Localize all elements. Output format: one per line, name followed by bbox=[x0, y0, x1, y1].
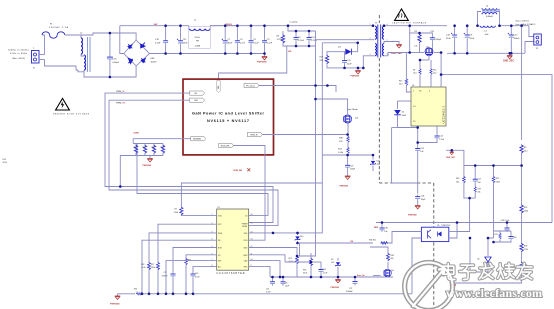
FHD pin rail bbox=[249, 266, 270, 277]
capacitor C10 bbox=[155, 26, 168, 54]
C30 cap on REF rail bbox=[380, 223, 389, 233]
svg-text:RUN: RUN bbox=[243, 240, 248, 242]
svg-text:4: 4 bbox=[429, 91, 430, 93]
fuse F1 bbox=[42, 32, 65, 38]
svg-text:0.068uF: 0.068uF bbox=[346, 291, 353, 293]
svg-text:22uF: 22uF bbox=[470, 38, 475, 40]
svg-text:C31: C31 bbox=[421, 196, 424, 198]
svg-text:220pF: 220pF bbox=[350, 169, 356, 171]
svg-text:CAUTION HOT SURFACE: CAUTION HOT SURFACE bbox=[392, 22, 427, 25]
svg-text:www.elecfans.com: www.elecfans.com bbox=[446, 286, 542, 300]
svg-text:0.1uF: 0.1uF bbox=[267, 43, 273, 45]
svg-text:UCC24612-1: UCC24612-1 bbox=[442, 106, 446, 124]
svg-text:VIN: VIN bbox=[288, 51, 292, 53]
inductor L1 bbox=[189, 20, 238, 49]
capacitor C3 bbox=[262, 26, 273, 54]
bottom primary ground rail bbox=[110, 289, 412, 306]
VS pin bbox=[186, 255, 217, 258]
svg-text:VSW_B: VSW_B bbox=[250, 134, 258, 136]
svg-text:R21: R21 bbox=[496, 178, 499, 180]
svg-text:30uF: 30uF bbox=[228, 43, 233, 45]
svg-text:R6: R6 bbox=[413, 70, 415, 72]
svg-text:R21: R21 bbox=[161, 146, 164, 148]
svg-text:R10: R10 bbox=[433, 70, 436, 72]
svg-text:RUN_BH: RUN_BH bbox=[221, 145, 230, 147]
svg-text:U2: U2 bbox=[477, 259, 479, 261]
svg-text:REF: REF bbox=[374, 227, 379, 229]
aux winding return bbox=[363, 56, 373, 68]
svg-text:PWM_NL: PWM_NL bbox=[116, 91, 126, 93]
svg-text:GND_SEC: GND_SEC bbox=[503, 61, 514, 63]
svg-text:1uH: 1uH bbox=[485, 34, 489, 36]
svg-text:U4: U4 bbox=[412, 85, 414, 87]
svg-text:C20 2.2uF: C20 2.2uF bbox=[501, 220, 511, 222]
svg-text:4700pF: 4700pF bbox=[162, 275, 169, 277]
warning triangle: caution hot surface bbox=[392, 9, 427, 25]
svg-text:RDM: RDM bbox=[218, 233, 223, 235]
svg-text:(Max 440V): (Max 440V) bbox=[12, 58, 25, 60]
svg-text:10.0: 10.0 bbox=[413, 73, 417, 75]
svg-text:5: 5 bbox=[413, 91, 414, 93]
wire N to bottom rail bbox=[45, 60, 79, 71]
SWS pin bbox=[249, 255, 285, 262]
wire L2 to X-cap top bbox=[81, 33, 110, 38]
GND_SEC mini near IC bbox=[446, 150, 464, 165]
svg-text:NH: NH bbox=[194, 100, 198, 102]
svg-text:R25: R25 bbox=[524, 207, 527, 209]
current sense resistor bank R16 R18 R20 R21 bbox=[120, 144, 164, 187]
controller left-side components bbox=[141, 183, 322, 294]
svg-text:23V: 23V bbox=[377, 164, 381, 166]
primary bottom wire to transformer bbox=[316, 39, 374, 41]
svg-text:0.1uF: 0.1uF bbox=[240, 43, 246, 45]
X-cap C1 bbox=[107, 33, 120, 77]
svg-text:D5: D5 bbox=[402, 112, 404, 114]
PWM_NL wire bbox=[105, 93, 273, 222]
svg-text:10.0: 10.0 bbox=[433, 73, 437, 75]
svg-text:R18: R18 bbox=[143, 146, 146, 148]
svg-text:R27: R27 bbox=[151, 264, 154, 266]
secondary mid to GND_SEC bbox=[384, 42, 399, 45]
rail from FB riser bbox=[447, 145, 528, 294]
resistor R17 bbox=[320, 55, 364, 68]
svg-text:R36: R36 bbox=[391, 255, 394, 257]
svg-text:U5: U5 bbox=[437, 225, 439, 227]
isolation barrier dashed bbox=[379, 15, 434, 305]
PWRGND mid bbox=[337, 277, 339, 280]
svg-text:CSNS: CSNS bbox=[133, 133, 139, 135]
AD pin bbox=[193, 266, 217, 272]
PV_Drain wire bbox=[259, 86, 336, 93]
svg-text:DANGER HIGH VOLTAGE: DANGER HIGH VOLTAGE bbox=[53, 112, 90, 115]
VAC bus corner down to bridge left vertex bbox=[120, 26, 124, 54]
gate resistors R6 R10 bbox=[413, 60, 437, 87]
svg-text:13: 13 bbox=[251, 239, 253, 241]
bridge output to ground rail bbox=[150, 53, 265, 55]
svg-text:R23: R23 bbox=[289, 258, 292, 260]
svg-text:Iout = 0A to 3.25A DC: Iout = 0A to 3.25A DC bbox=[516, 23, 537, 26]
svg-text:1.09A: 1.09A bbox=[195, 44, 201, 47]
optocoupler U5 bbox=[297, 223, 457, 294]
svg-text:C_damp: C_damp bbox=[290, 22, 299, 24]
svg-text:2.2uF: 2.2uF bbox=[439, 139, 445, 141]
svg-text:PH: PH bbox=[196, 41, 199, 43]
svg-text:PWRGND: PWRGND bbox=[257, 62, 267, 64]
CAD pin to C8 bbox=[249, 261, 280, 277]
svg-text:33uF: 33uF bbox=[183, 43, 188, 45]
svg-text:0.22uF: 0.22uF bbox=[311, 40, 318, 42]
capacitor C7 bbox=[222, 26, 233, 54]
FB divider riser from Vout bbox=[521, 26, 523, 140]
output cap C18 bbox=[508, 26, 521, 54]
bridge rectifier DB1 bbox=[124, 40, 157, 66]
svg-text:10k: 10k bbox=[478, 192, 481, 194]
svg-text:R5: R5 bbox=[524, 147, 526, 149]
svg-text:PWM_NH: PWM_NH bbox=[116, 102, 126, 104]
divider branch R21b bbox=[492, 166, 500, 239]
svg-text:GND_SEC: GND_SEC bbox=[391, 53, 402, 55]
VDD riser bbox=[249, 43, 323, 233]
wire L2 bottom to rail bbox=[84, 72, 110, 77]
ground PWRGND (aux) bbox=[351, 68, 361, 78]
svg-text:R28: R28 bbox=[141, 264, 144, 266]
ground PWRGND (primary filter) bbox=[257, 54, 267, 64]
capacitor C11 bbox=[177, 26, 188, 54]
svg-text:C26: C26 bbox=[420, 148, 423, 150]
inductor L3 inline bbox=[480, 26, 495, 36]
output rail continue bbox=[500, 25, 529, 27]
ground GND_SEC output bbox=[503, 53, 514, 62]
svg-text:C29: C29 bbox=[350, 166, 353, 168]
svg-text:R34 806: R34 806 bbox=[369, 240, 376, 242]
svg-text:C1X: C1X bbox=[113, 59, 118, 61]
svg-text:R20: R20 bbox=[152, 146, 155, 148]
svg-text:15: 15 bbox=[251, 223, 253, 225]
aux rectifier diode D4 bbox=[327, 47, 351, 55]
port flag NL bbox=[190, 91, 205, 95]
port flag NH bbox=[190, 98, 205, 102]
R11 100 at IC left bbox=[398, 101, 412, 109]
svg-text:16: 16 bbox=[251, 214, 253, 216]
svg-text:R24: R24 bbox=[3, 159, 6, 161]
C19 bbox=[320, 262, 322, 268]
svg-text:600V: 600V bbox=[402, 115, 407, 117]
GND pin to R23 bbox=[249, 248, 297, 257]
VDD pin wire + R7 bbox=[181, 214, 216, 216]
svg-text:C14: C14 bbox=[439, 136, 442, 138]
svg-text:33.0k: 33.0k bbox=[303, 273, 307, 275]
FB pin long wire bbox=[142, 240, 217, 294]
svg-text:PWRGND: PWRGND bbox=[110, 304, 120, 306]
svg-text:1.5k: 1.5k bbox=[414, 46, 417, 48]
svg-text:2200pF: 2200pF bbox=[435, 39, 442, 41]
svg-text:R31: R31 bbox=[134, 289, 137, 291]
svg-text:22uH: 22uH bbox=[195, 37, 200, 39]
bus continues bbox=[210, 25, 373, 27]
divider branch R12 + C27 bbox=[456, 166, 482, 232]
svg-text:TCMT1107: TCMT1107 bbox=[441, 225, 450, 227]
svg-text:C19: C19 bbox=[323, 269, 326, 271]
svg-text:R12: R12 bbox=[399, 81, 402, 83]
svg-text:13k: 13k bbox=[456, 181, 459, 183]
VAC bus bbox=[120, 25, 189, 27]
svg-text:SENSE1: SENSE1 bbox=[193, 139, 202, 141]
wire fuse to L2 bbox=[65, 35, 81, 38]
svg-text:243k: 243k bbox=[151, 267, 155, 269]
svg-text:0.1uF: 0.1uF bbox=[155, 43, 161, 45]
C26 cap to gnd bbox=[415, 126, 424, 194]
svg-text:R16: R16 bbox=[134, 146, 137, 148]
svg-text:1: 1 bbox=[370, 24, 371, 26]
svg-text:R35: R35 bbox=[303, 270, 306, 272]
choke L2 bbox=[78, 33, 90, 73]
svg-text:RUN_BH: RUN_BH bbox=[234, 170, 243, 172]
svg-text:43.2: 43.2 bbox=[524, 150, 528, 152]
RDM pin bbox=[149, 233, 217, 262]
capacitor C5 bbox=[249, 26, 260, 54]
svg-text:Vout = 20V DC: Vout = 20V DC bbox=[516, 20, 530, 23]
shunt regulator U2 ATL431 bbox=[470, 238, 494, 272]
C20 cap on rail bbox=[501, 220, 511, 232]
connector J2 bbox=[525, 26, 541, 54]
svg-text:C8: C8 bbox=[285, 283, 287, 285]
svg-text:1.21M: 1.21M bbox=[277, 39, 283, 41]
svg-text:171k: 171k bbox=[524, 249, 528, 251]
GND_SEC rail from Q2 source bbox=[441, 53, 552, 223]
svg-text:Euro_En: Euro_En bbox=[357, 275, 366, 277]
svg-text:C28: C28 bbox=[513, 237, 516, 239]
svg-text:100Vac to 240Vac: 100Vac to 240Vac bbox=[8, 49, 29, 52]
svg-text:0.68mH: 0.68mH bbox=[486, 16, 493, 18]
R35 bbox=[309, 258, 312, 266]
svg-text:PWRGND: PWRGND bbox=[408, 215, 417, 217]
svg-text:D10: D10 bbox=[300, 236, 303, 238]
svg-text:R12: R12 bbox=[456, 178, 459, 180]
svg-text:R26: R26 bbox=[524, 246, 527, 248]
C14 cap below IC bbox=[418, 126, 445, 143]
BUR pin bbox=[173, 248, 217, 273]
svg-text:GND_SEC: GND_SEC bbox=[446, 157, 456, 159]
svg-text:230VAC 2.5A: 230VAC 2.5A bbox=[49, 26, 69, 29]
diode D5 600V bbox=[392, 110, 418, 183]
svg-text:PV_Drain: PV_Drain bbox=[246, 84, 256, 87]
svg-text:100k: 100k bbox=[524, 210, 528, 212]
RUN_BH wire bbox=[234, 146, 266, 241]
svg-text:499: 499 bbox=[391, 258, 394, 260]
svg-text:U3: U3 bbox=[218, 207, 220, 209]
svg-text:C21: C21 bbox=[266, 289, 269, 291]
VS stub bbox=[440, 75, 442, 87]
svg-text:0.68uF: 0.68uF bbox=[113, 62, 120, 64]
svg-text:0: 0 bbox=[137, 292, 138, 294]
PWM_NH wire bbox=[109, 100, 278, 225]
port flag SENSE1 bbox=[191, 137, 206, 141]
svg-text:UCC28780RTER: UCC28780RTER bbox=[217, 272, 245, 275]
svg-text:PWML: PWML bbox=[242, 226, 247, 228]
connector J1 bbox=[32, 48, 45, 70]
NTC pin bbox=[158, 224, 217, 262]
bottom rail to bridge bottom bbox=[110, 66, 136, 77]
port flag VIN (vertical) bbox=[217, 81, 220, 93]
svg-text:43.2: 43.2 bbox=[399, 84, 403, 86]
port flag VSW_B bbox=[247, 132, 262, 136]
capacitor C25 bbox=[342, 52, 352, 68]
long vertical wire (VS riser) bbox=[315, 31, 317, 86]
svg-text:R7: R7 bbox=[175, 209, 177, 211]
svg-text:R19: R19 bbox=[478, 189, 481, 191]
controller right-side area components bbox=[249, 247, 394, 294]
svg-text:R29: R29 bbox=[495, 234, 498, 236]
snubber R2 C13 bbox=[410, 31, 442, 53]
C21 cap bbox=[354, 277, 356, 280]
svg-text:PWRGND: PWRGND bbox=[331, 287, 340, 289]
svg-text:14: 14 bbox=[251, 231, 253, 233]
svg-text:C27: C27 bbox=[478, 179, 481, 181]
SENSE1 wire bbox=[133, 139, 191, 144]
secondary bottom to SR rail bbox=[384, 53, 410, 57]
svg-text:GND: GND bbox=[243, 248, 248, 250]
svg-text:3: 3 bbox=[370, 54, 371, 56]
svg-text:100uF: 100uF bbox=[514, 38, 521, 40]
SR fet Q2 (horizontal) bbox=[410, 33, 441, 60]
svg-text:Depl. Mode: Depl. Mode bbox=[347, 109, 358, 111]
svg-text:2: 2 bbox=[370, 38, 371, 40]
wire xcap to bridge top bbox=[110, 33, 136, 40]
svg-text:D9: D9 bbox=[331, 259, 333, 261]
Y-capacitor C31 bbox=[408, 195, 426, 217]
C_damp network R4 C6 C24 bbox=[219, 22, 318, 84]
top feedback rail bbox=[376, 222, 552, 224]
red block NV6115+NV6117 bbox=[183, 79, 274, 155]
svg-text:GaN Power IC and Level Shifter: GaN Power IC and Level Shifter bbox=[192, 112, 265, 116]
svg-text:Q4: Q4 bbox=[391, 270, 394, 272]
zener D10 REF clamp bbox=[295, 233, 304, 243]
svg-text:PWRGND: PWRGND bbox=[340, 186, 349, 188]
D9 zener bbox=[337, 267, 339, 277]
svg-text:C30: C30 bbox=[384, 228, 387, 230]
VSW_B wire bbox=[262, 134, 348, 136]
svg-text:PWRGND: PWRGND bbox=[351, 76, 360, 78]
svg-text:0.22uF: 0.22uF bbox=[298, 40, 305, 42]
svg-text:243k: 243k bbox=[496, 181, 500, 183]
svg-text:47Hz to 63Hz: 47Hz to 63Hz bbox=[10, 52, 27, 55]
input ratings text bbox=[8, 49, 29, 60]
svg-text:1.00k: 1.00k bbox=[174, 212, 179, 214]
wire L to fuse bbox=[42, 35, 45, 55]
output choke L4 (top loop) bbox=[478, 5, 501, 25]
svg-text:43.2k: 43.2k bbox=[3, 162, 7, 164]
R12 43.2 drain sense bbox=[399, 53, 411, 93]
output rail caps C16 C9 bbox=[446, 26, 475, 54]
Q4 fet bbox=[384, 269, 391, 276]
svg-text:C21: C21 bbox=[349, 288, 352, 290]
svg-text:22uF: 22uF bbox=[347, 63, 352, 65]
svg-text:PWRGND: PWRGND bbox=[143, 165, 152, 167]
svg-text:C23: C23 bbox=[195, 273, 198, 275]
secondary top to output rail bbox=[384, 26, 410, 33]
svg-text:1000V: 1000V bbox=[151, 62, 158, 64]
warning triangle: danger high voltage bbox=[53, 98, 90, 115]
capacitor C4 bbox=[235, 26, 246, 54]
svg-text:NV6115 + NV6117: NV6115 + NV6117 bbox=[207, 119, 249, 123]
port flag RUN_BH bbox=[219, 143, 234, 147]
svg-text:0.1uF: 0.1uF bbox=[253, 43, 259, 45]
svg-text:22uF: 22uF bbox=[446, 38, 451, 40]
port flag PV_Drain bbox=[244, 83, 259, 87]
svg-text:VAC: VAC bbox=[154, 23, 159, 26]
SET pin bbox=[166, 261, 217, 294]
secondary ground rail bbox=[447, 52, 525, 54]
svg-text:VIN: VIN bbox=[217, 86, 219, 90]
compensation R19 C28 bbox=[494, 231, 517, 242]
transformer T1 bbox=[370, 23, 389, 58]
CS sense rail bbox=[137, 144, 268, 216]
